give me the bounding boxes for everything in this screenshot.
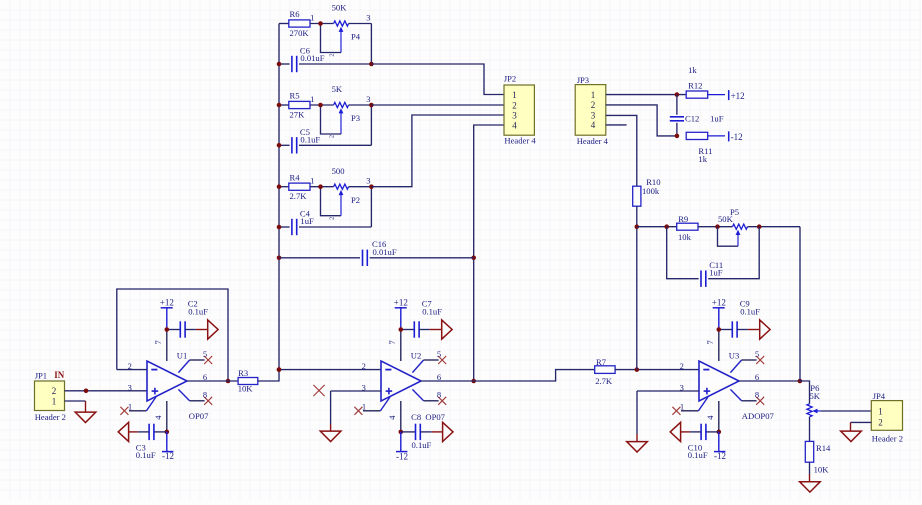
svg-text:1: 1 [680,401,684,411]
svg-text:5K: 5K [810,391,821,401]
svg-text:JP3: JP3 [577,75,589,85]
svg-text:P2: P2 [351,195,360,205]
svg-text:2: 2 [362,361,366,371]
svg-text:8: 8 [203,390,207,400]
svg-text:OP07: OP07 [425,412,445,422]
svg-text:2: 2 [680,361,684,371]
svg-text:8: 8 [437,390,441,400]
svg-text:4: 4 [153,415,163,420]
svg-text:3: 3 [366,176,370,186]
svg-text:50K: 50K [332,3,348,13]
svg-text:4: 4 [591,120,596,130]
svg-text:R14: R14 [816,443,831,453]
svg-text:2: 2 [512,100,517,110]
svg-text:270K: 270K [290,28,310,38]
svg-text:1k: 1k [688,65,697,75]
svg-text:U2: U2 [411,350,422,360]
svg-text:R9: R9 [678,214,688,224]
svg-text:7: 7 [153,340,163,344]
svg-text:2: 2 [329,135,336,138]
svg-text:ADOP07: ADOP07 [742,411,775,421]
svg-text:Header 4: Header 4 [504,136,536,146]
svg-text:3: 3 [591,111,596,121]
svg-text:0.1uF: 0.1uF [412,440,432,450]
svg-text:1: 1 [362,401,366,411]
svg-text:R4: R4 [290,172,301,182]
svg-text:4: 4 [387,415,397,420]
svg-text:1k: 1k [698,154,707,164]
svg-text:0.1uF: 0.1uF [300,134,320,144]
svg-text:IN: IN [54,370,65,380]
svg-text:0.1uF: 0.1uF [136,450,156,460]
svg-text:1uF: 1uF [709,268,723,278]
svg-text:P3: P3 [351,113,360,123]
svg-text:Header 4: Header 4 [577,136,609,146]
svg-text:1: 1 [591,90,596,100]
svg-text:2: 2 [329,53,336,56]
svg-text:-12: -12 [731,132,743,142]
svg-text:2.7K: 2.7K [595,376,613,386]
svg-text:500: 500 [332,166,345,176]
svg-text:7: 7 [705,340,715,344]
svg-text:1uF: 1uF [300,216,314,226]
svg-text:R6: R6 [290,9,301,19]
svg-text:1: 1 [128,401,132,411]
svg-text:6: 6 [755,372,759,382]
svg-text:3: 3 [366,13,370,23]
svg-text:5: 5 [203,349,207,359]
svg-text:1: 1 [512,90,517,100]
svg-text:P5: P5 [730,207,739,217]
svg-text:10K: 10K [238,383,254,393]
svg-text:2: 2 [329,217,336,220]
svg-text:5: 5 [437,349,441,359]
svg-text:0.1uF: 0.1uF [688,450,708,460]
svg-text:+12: +12 [160,297,174,307]
svg-text:OP07: OP07 [189,411,209,421]
svg-text:0.01uF: 0.01uF [300,53,324,63]
svg-text:1: 1 [878,406,883,416]
svg-text:7: 7 [387,340,397,344]
svg-text:+12: +12 [731,91,745,101]
svg-text:JP1: JP1 [35,370,47,380]
svg-text:U1: U1 [177,350,188,360]
svg-text:1uF: 1uF [710,113,724,123]
svg-text:8: 8 [755,390,759,400]
svg-text:3: 3 [512,110,517,120]
svg-text:4: 4 [705,415,715,420]
svg-text:Header 2: Header 2 [35,412,66,422]
svg-text:6: 6 [203,372,207,382]
svg-text:27K: 27K [290,109,306,119]
svg-text:R5: R5 [290,91,300,101]
svg-text:5: 5 [755,349,759,359]
svg-text:1: 1 [310,94,314,104]
svg-text:R7: R7 [596,357,607,367]
svg-text:1: 1 [310,13,314,23]
svg-text:100k: 100k [642,186,660,196]
svg-text:3: 3 [366,94,370,104]
svg-text:2.7K: 2.7K [290,191,308,201]
svg-text:2: 2 [591,100,596,110]
svg-text:10K: 10K [814,465,830,475]
svg-text:2: 2 [878,418,883,428]
svg-text:4: 4 [512,120,517,130]
svg-text:5K: 5K [332,84,343,94]
svg-text:0.1uF: 0.1uF [740,307,760,317]
svg-text:1: 1 [52,396,57,406]
svg-text:Header 2: Header 2 [872,433,903,443]
svg-text:10k: 10k [678,232,692,242]
svg-text:1: 1 [310,176,314,186]
svg-text:C12: C12 [685,113,699,123]
svg-text:U3: U3 [729,350,740,360]
svg-text:JP4: JP4 [873,391,886,401]
svg-text:R12: R12 [688,81,702,91]
svg-text:JP2: JP2 [504,74,516,84]
svg-text:-12: -12 [396,451,408,461]
svg-text:0.1uF: 0.1uF [422,307,442,317]
svg-text:3: 3 [128,382,132,392]
svg-text:-12: -12 [162,451,174,461]
svg-text:2: 2 [52,386,57,396]
svg-text:C8: C8 [411,412,421,422]
svg-text:0.01uF: 0.01uF [373,247,397,257]
svg-text:P4: P4 [351,32,361,42]
svg-text:+12: +12 [394,297,408,307]
svg-text:+12: +12 [712,297,726,307]
svg-text:-12: -12 [714,451,726,461]
svg-text:0.1uF: 0.1uF [188,307,208,317]
svg-text:R3: R3 [238,368,248,378]
svg-text:6: 6 [437,372,441,382]
